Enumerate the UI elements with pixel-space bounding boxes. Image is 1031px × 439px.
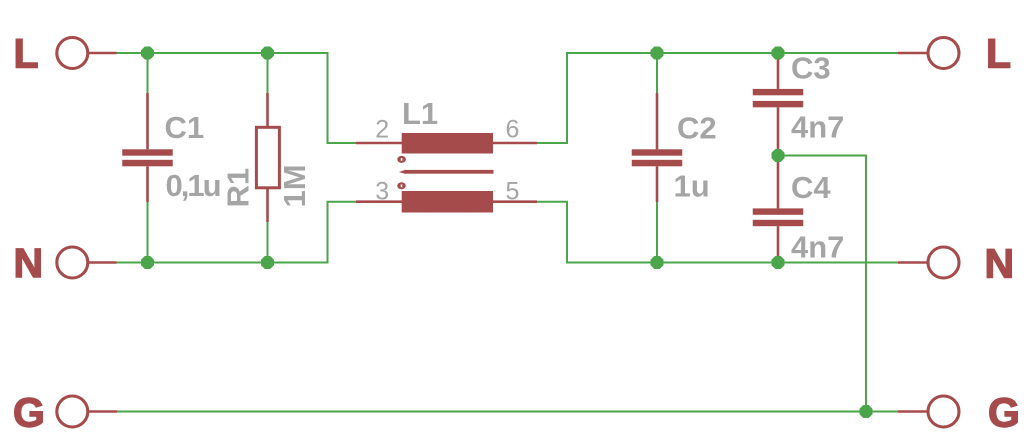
svg-text:1M: 1M	[277, 164, 312, 207]
capacitor C1	[122, 93, 173, 202]
pin number 2	[375, 116, 389, 144]
choke L1 polarity dot winding 2	[397, 182, 406, 189]
choke L1 polarity dot winding 1	[397, 156, 406, 163]
choke L1 winding 1	[356, 133, 537, 154]
wire net N left horizontal	[117, 202, 357, 263]
svg-text:1u: 1u	[674, 168, 710, 203]
label C2 value 1u	[674, 168, 710, 203]
pin number 5	[506, 178, 520, 206]
terminal pad N left	[57, 247, 88, 278]
svg-text:5: 5	[506, 178, 520, 206]
svg-text:C3: C3	[791, 50, 831, 85]
junction N line x267.5	[261, 256, 274, 269]
terminal pad G right	[928, 396, 959, 427]
junction C3/C4 mid x778	[772, 149, 785, 162]
junction L line x657	[651, 47, 664, 60]
choke L1 winding 2	[356, 191, 537, 213]
svg-text:6: 6	[506, 116, 520, 144]
wire net L left horizontal	[117, 53, 357, 143]
label C1 name	[165, 110, 205, 145]
choke L1 core line with arrow	[399, 170, 494, 174]
resistor R1	[256, 93, 279, 222]
pin of terminal G right	[898, 410, 927, 412]
svg-text:G: G	[13, 390, 45, 436]
capacitor C2	[632, 93, 683, 202]
junction N line x657	[651, 256, 664, 269]
svg-text:R1: R1	[221, 168, 256, 208]
svg-text:C1: C1	[165, 110, 205, 145]
terminal pad L left	[57, 38, 88, 69]
junction N line x778	[772, 256, 785, 269]
wire R1 top stub	[267, 53, 269, 93]
svg-text:0,1u: 0,1u	[166, 168, 222, 203]
label terminal G left	[13, 390, 45, 436]
svg-text:L: L	[14, 31, 39, 77]
label C4 value 4n7	[791, 229, 844, 264]
junction N line x147.5	[141, 256, 154, 269]
wire C2 top stub	[656, 53, 658, 93]
svg-text:C2: C2	[677, 110, 717, 145]
label terminal N left	[14, 240, 44, 286]
junction L line x147.5	[141, 47, 154, 60]
svg-text:G: G	[988, 390, 1020, 436]
wire net G horizontal	[117, 411, 898, 413]
wire C2 bottom stub	[656, 202, 658, 263]
capacitor C4	[753, 156, 804, 263]
label C1 value 0,1u	[166, 168, 222, 203]
terminal pad L right	[928, 38, 959, 69]
label C3 name	[791, 50, 831, 85]
label terminal N right	[985, 241, 1015, 287]
terminal pad N right	[928, 247, 959, 278]
svg-text:2: 2	[375, 116, 389, 144]
wire net L right horizontal	[537, 53, 898, 143]
label L1 name	[402, 96, 438, 131]
terminal pad G left	[57, 396, 88, 427]
wire C1 top stub	[147, 53, 149, 93]
wire R1 bottom stub	[267, 222, 269, 263]
svg-text:N: N	[985, 241, 1015, 287]
label C4 name	[791, 170, 831, 205]
svg-text:4n7: 4n7	[791, 229, 844, 264]
label terminal G right	[988, 390, 1020, 436]
label terminal L left	[14, 31, 39, 77]
svg-text:L: L	[986, 31, 1011, 77]
pin of terminal N left	[89, 261, 117, 263]
label terminal L right	[986, 31, 1011, 77]
svg-text:N: N	[14, 240, 44, 286]
pin of terminal N right	[898, 261, 927, 263]
svg-text:4n7: 4n7	[791, 110, 844, 145]
junction L line x267.5	[261, 47, 274, 60]
pin number 3	[375, 178, 389, 206]
pin of terminal L right	[898, 52, 927, 54]
label C3 value 4n7	[791, 110, 844, 145]
label C2 name	[677, 110, 717, 145]
capacitor C3	[753, 53, 804, 156]
junction G line x866	[860, 405, 873, 418]
pin of terminal L left	[89, 52, 117, 54]
wire C1 bottom stub	[147, 202, 149, 263]
pin of terminal G left	[89, 410, 118, 412]
svg-text:C4: C4	[791, 170, 831, 205]
junction L line x778	[772, 47, 785, 60]
wire mid net C3/C4 to G	[778, 156, 866, 412]
pin number 6	[506, 116, 520, 144]
svg-text:3: 3	[375, 178, 389, 206]
svg-text:L1: L1	[402, 96, 438, 131]
label R1 value 1M	[277, 164, 312, 207]
wire net N right horizontal	[537, 202, 898, 263]
label R1 name	[221, 168, 256, 208]
